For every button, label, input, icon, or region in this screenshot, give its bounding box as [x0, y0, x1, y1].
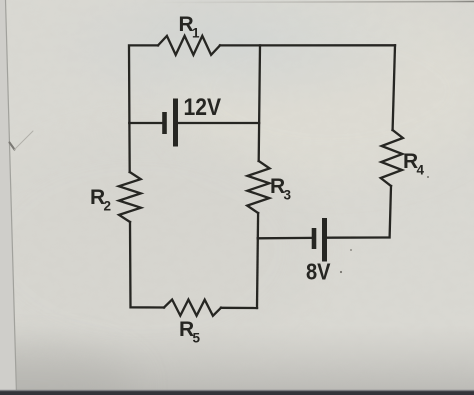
wire left rail lower + bottom-left corner [130, 222, 164, 308]
wire bottom right segment [221, 307, 257, 310]
checkmark mark on left margin [10, 131, 34, 150]
bottom dark strip [0, 390, 474, 395]
wire 12V left segment [129, 122, 162, 124]
wire top right segment [220, 44, 395, 46]
label R1 [179, 13, 201, 41]
wire right rail upper [393, 45, 395, 130]
svg-text:3: 3 [284, 188, 292, 203]
wire right rail lower [327, 186, 391, 238]
wire middle rail top [259, 45, 260, 161]
resistor R2 [119, 172, 141, 222]
label R2 [90, 186, 111, 214]
resistor R5 [164, 300, 221, 316]
svg-text:1: 1 [192, 26, 200, 41]
wire left rail middle [128, 123, 131, 172]
resistor R4 [381, 130, 403, 186]
label 8V [306, 259, 331, 285]
label R5 [179, 318, 201, 346]
svg-text:8V: 8V [306, 259, 331, 285]
wire 12V right segment [178, 122, 259, 124]
resistor R3 [247, 161, 269, 213]
top page edge line [150, 2, 474, 3]
svg-text:12V: 12V [184, 94, 222, 121]
label 12V [184, 94, 222, 121]
label R3 [270, 175, 292, 203]
svg-text:4: 4 [417, 163, 425, 178]
battery 12V [165, 99, 176, 147]
battery 8V [314, 218, 325, 262]
resistor R1 [158, 36, 220, 55]
label R4 [403, 150, 425, 178]
paper left edge band [0, 0, 17, 395]
wire 8V to middle rail [258, 237, 311, 240]
svg-text:2: 2 [104, 199, 112, 214]
wire left rail upper + top-left corner [129, 45, 158, 123]
speck dots [340, 176, 429, 273]
wire middle rail bottom [257, 213, 258, 308]
svg-text:5: 5 [193, 331, 201, 346]
